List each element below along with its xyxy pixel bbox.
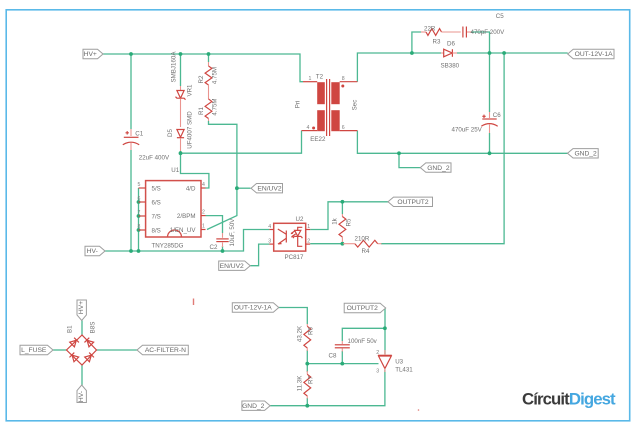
U1 pin 2 2/BPM — [201, 215, 206, 217]
wire C8 top branch — [342, 328, 385, 341]
svg-text:C8: C8 — [329, 353, 337, 360]
svg-text:HV-: HV- — [87, 248, 98, 255]
svg-text:5: 5 — [138, 182, 141, 188]
svg-text:B1: B1 — [67, 325, 74, 333]
net label AC-FILTER-N — [137, 345, 188, 354]
svg-text:2/BPM: 2/BPM — [177, 213, 196, 220]
wire C6 bottom — [489, 133, 491, 153]
svg-text:U1: U1 — [171, 167, 179, 174]
svg-text:EE22: EE22 — [310, 136, 326, 143]
svg-text:C5: C5 — [496, 13, 504, 20]
svg-text:3: 3 — [376, 369, 379, 375]
svg-text:U3: U3 — [395, 359, 403, 366]
stray red speck — [418, 409, 420, 411]
wire T2 pin6 to GND rail — [357, 131, 567, 154]
svg-text:SB380: SB380 — [441, 63, 460, 70]
svg-text:7/S: 7/S — [152, 213, 161, 220]
svg-text:1/EN_UV: 1/EN_UV — [170, 227, 197, 234]
svg-text:Pri: Pri — [295, 101, 302, 109]
svg-text:Sec: Sec — [352, 100, 359, 111]
transformer T2 pin 1 stub — [303, 81, 317, 83]
svg-text:4: 4 — [307, 125, 310, 131]
transformer T2 primary winding — [317, 82, 325, 104]
node snubber left — [410, 51, 414, 55]
node EN/UV2 junction — [235, 186, 239, 190]
wire bridge top to HV+ — [81, 321, 83, 336]
wire ref line R6R7 to TL431 — [307, 363, 378, 365]
capacitor C2 10uF 50V — [222, 233, 224, 238]
U2 pin 4 — [269, 229, 273, 231]
wire C1 branch top — [130, 54, 132, 129]
net label OUTPUT2 top — [388, 197, 433, 206]
transformer T2 pin 6 stub — [340, 130, 358, 132]
wire U1 pin2 to C2 — [206, 216, 223, 233]
node HV+ / VR1 junction — [179, 52, 183, 56]
svg-text:B8S: B8S — [89, 322, 96, 334]
wire R7 to GND — [306, 398, 308, 406]
wire R1 to EN/UV node — [207, 121, 237, 230]
net label GND_2 bottom — [242, 401, 270, 410]
resistor R4 210R — [343, 243, 355, 245]
wire D6 cathode to OUT label — [457, 52, 568, 54]
wire U1 ground bus — [138, 188, 140, 251]
wire bridge bottom to HV- — [81, 365, 83, 385]
svg-text:GND_2: GND_2 — [574, 151, 597, 158]
U2 LED — [298, 227, 303, 230]
svg-text:R3: R3 — [433, 39, 441, 46]
svg-text:22uF 400V: 22uF 400V — [139, 155, 170, 162]
net label HV- mid — [85, 246, 105, 255]
net label HV- vertical — [77, 385, 86, 403]
bridge diode bottom-left — [69, 353, 78, 362]
svg-text:AC-FILTER-N: AC-FILTER-N — [145, 347, 186, 354]
svg-text:C6: C6 — [493, 112, 501, 119]
diode D5 UF4007 — [177, 130, 184, 138]
node R6 R7 junction — [305, 362, 309, 366]
node bus pin7 — [137, 214, 141, 218]
node R5 bottom — [341, 242, 345, 246]
svg-text:4: 4 — [202, 182, 205, 188]
wire U2 pin2 / R4 net — [310, 243, 343, 245]
bridge diode bottom-right — [85, 353, 94, 362]
U2 pin 1 — [306, 229, 311, 231]
transformer T2 core — [327, 79, 330, 136]
wire C2 bottom — [222, 246, 224, 251]
svg-text:R2: R2 — [198, 75, 205, 83]
wire T2 pin8 to output — [357, 53, 441, 82]
net label OUTPUT2 bottom — [344, 303, 386, 312]
svg-text:OUT-12V-1A: OUT-12V-1A — [234, 305, 272, 312]
node HV- bus junction — [137, 249, 141, 253]
svg-text:GND_2: GND_2 — [242, 403, 265, 410]
wire snubber left — [412, 32, 421, 53]
bridge diode top-right — [84, 338, 93, 347]
net label GND_2 tap — [420, 163, 451, 172]
node TL431 cathode — [383, 326, 387, 330]
svg-text:4: 4 — [268, 224, 271, 230]
net label EN/UV2 right of U1 — [251, 184, 283, 193]
svg-text:U2: U2 — [296, 216, 304, 223]
wire drain node to primary — [181, 131, 302, 154]
svg-text:SMBJ160A: SMBJ160A — [171, 51, 178, 83]
node GND C6 — [488, 151, 492, 155]
svg-text:OUTPUT2: OUTPUT2 — [347, 305, 378, 312]
node OUT C6 — [488, 51, 492, 55]
wire HV- rail — [105, 230, 269, 252]
transformer T2 pin 8 stub — [340, 81, 358, 83]
node HV- C1 junction — [129, 249, 133, 253]
svg-text:UF4007 SMD: UF4007 SMD — [186, 111, 193, 149]
svg-text:R7: R7 — [308, 375, 315, 383]
node HV- C2 junction — [221, 249, 225, 253]
svg-text:2: 2 — [307, 238, 310, 244]
svg-text:6: 6 — [138, 196, 141, 202]
op IC U1 TNY285DG body — [146, 181, 201, 237]
wire R6 R7 chain — [306, 350, 308, 372]
svg-text:43.2K: 43.2K — [296, 325, 303, 342]
svg-text:6: 6 — [342, 125, 345, 131]
svg-text:470uF 25V: 470uF 25V — [452, 127, 483, 134]
bridge rectifier B1 diamond — [67, 335, 97, 365]
svg-text:4.75M: 4.75M — [211, 67, 218, 84]
node R5 top — [341, 200, 345, 204]
U2 light arrows — [291, 231, 296, 237]
wire R4 to OUT rail — [381, 53, 504, 244]
node bus pin6 — [137, 200, 141, 204]
svg-text:1: 1 — [202, 224, 205, 230]
svg-text:10uF, 50V: 10uF, 50V — [229, 218, 236, 247]
wire GND_2 bottom rail — [270, 370, 385, 406]
node HV+ / C1 junction — [129, 52, 133, 56]
svg-text:2: 2 — [376, 350, 379, 356]
U1 pin 1 EN_UV — [201, 229, 206, 231]
transformer T2 pin 4 stub — [302, 130, 318, 132]
bridge diode top-left — [70, 338, 79, 347]
svg-text:C2: C2 — [210, 244, 218, 251]
svg-text:R5: R5 — [345, 218, 352, 226]
net label HV+ vertical — [77, 300, 86, 321]
svg-text:3: 3 — [268, 238, 271, 244]
net label L_FUSE — [20, 345, 53, 354]
svg-text:CírcuitDigest: CírcuitDigest — [522, 390, 616, 409]
U1 pin 8 8/S — [139, 229, 146, 231]
net label EN/UV2 to opto — [219, 261, 251, 270]
svg-text:11.3K: 11.3K — [296, 375, 303, 392]
svg-text:1: 1 — [307, 224, 310, 230]
node GND R7 — [305, 404, 309, 408]
svg-text:1: 1 — [309, 76, 312, 82]
svg-text:D5: D5 — [167, 128, 174, 136]
svg-text:2: 2 — [202, 210, 205, 216]
svg-text:VR1: VR1 — [186, 84, 193, 97]
node C8 bottom — [340, 362, 344, 366]
svg-text:210R: 210R — [355, 236, 370, 243]
resistor R1 4.75M — [205, 99, 212, 119]
wire bridge right to AC-FILTER-N — [97, 349, 138, 351]
resistor R2 4.75M — [208, 62, 210, 66]
U2 pin 3 — [269, 243, 273, 245]
optocoupler U2 PC817 — [274, 223, 306, 251]
U1 pin 5 5/S — [139, 187, 146, 189]
svg-text:R6: R6 — [308, 326, 315, 334]
wire R2 branch — [208, 54, 210, 62]
node GND tap — [397, 151, 401, 155]
svg-text:L_FUSE: L_FUSE — [21, 347, 47, 354]
wire OUT-12V to R6 — [279, 308, 308, 325]
U2 phototransistor — [285, 231, 287, 243]
wire C8 bottom — [341, 351, 343, 364]
wire GND_2 tap — [399, 153, 420, 167]
svg-text:8: 8 — [342, 76, 345, 82]
wire drain to U1 pin 4 — [181, 153, 209, 188]
svg-text:470pF 200V: 470pF 200V — [471, 29, 506, 36]
svg-text:T2: T2 — [316, 74, 324, 81]
capacitor C6 470uF 25V — [489, 112, 491, 118]
svg-text:OUTPUT2: OUTPUT2 — [397, 199, 428, 206]
svg-text:HV-: HV- — [78, 391, 85, 402]
svg-text:EN/UV2: EN/UV2 — [220, 263, 244, 270]
U1 pin 7 7/S — [139, 215, 146, 217]
U1 pin 4 4/D — [201, 187, 206, 189]
diode D6 SB380 — [441, 52, 444, 54]
svg-text:4.75M: 4.75M — [211, 98, 218, 115]
svg-text:GND_2: GND_2 — [427, 165, 450, 172]
node bus pin8 — [137, 228, 141, 232]
net label OUT-12V-1A bottom — [232, 303, 278, 312]
capacitor C1 — [130, 129, 132, 136]
svg-text:TL431: TL431 — [395, 366, 413, 373]
svg-text:EN/UV2: EN/UV2 — [257, 185, 281, 192]
net label OUT-12V-1A top — [568, 49, 614, 58]
wire EN/UV2 to U2 pin3 — [250, 244, 269, 266]
resistor R3 22R — [421, 31, 426, 33]
svg-text:7: 7 — [138, 210, 141, 216]
svg-text:D6: D6 — [447, 40, 455, 47]
wire HV+ rail — [103, 54, 303, 82]
resistor R6 43.2K — [306, 324, 308, 326]
svg-text:100nF 50v: 100nF 50v — [348, 338, 378, 345]
svg-text:R4: R4 — [362, 248, 370, 255]
shunt regulator U3 TL431 — [378, 354, 392, 356]
wire OUTPUT2 label to TL431 cathode — [384, 309, 386, 355]
capacitor C5 470pF — [462, 27, 464, 38]
stray red tick — [193, 299, 194, 306]
wire bridge left to L_FUSE — [53, 349, 67, 351]
svg-text:C1: C1 — [135, 131, 143, 138]
svg-text:8/S: 8/S — [152, 227, 161, 234]
svg-text:PC817: PC817 — [285, 254, 304, 261]
svg-text:5/S: 5/S — [152, 185, 161, 192]
svg-text:4/D: 4/D — [186, 185, 196, 192]
wire R5 top node — [341, 202, 343, 214]
resistor R5 1k — [341, 214, 343, 217]
wire U2 pin1 to OUTPUT2 — [310, 202, 388, 230]
svg-text:22R: 22R — [424, 26, 436, 33]
svg-text:1k: 1k — [331, 217, 338, 224]
svg-text:HV+: HV+ — [84, 51, 97, 58]
zener VR1 SMBJ160A — [180, 86, 182, 90]
transformer T2 secondary winding — [331, 82, 339, 104]
wire VR1 branch — [180, 54, 182, 86]
U2 pin 2 — [306, 243, 311, 245]
net label GND_2 right — [568, 149, 599, 158]
wire C1 branch bottom — [130, 150, 132, 251]
wire C6 top — [489, 53, 491, 112]
capacitor C8 100nF — [341, 341, 343, 344]
svg-text:8: 8 — [138, 224, 141, 230]
svg-text:6/S: 6/S — [152, 199, 161, 206]
wire EN/UV2 label stub — [237, 187, 251, 189]
node drain junction — [179, 151, 183, 155]
svg-text:R1: R1 — [198, 106, 205, 114]
net label HV+ top — [83, 49, 103, 58]
svg-text:OUT-12V-1A: OUT-12V-1A — [575, 51, 613, 58]
U1 pin 6 6/S — [139, 201, 146, 203]
svg-text:TNY285DG: TNY285DG — [152, 243, 184, 250]
node HV+ / R2 junction — [207, 52, 211, 56]
svg-text:HV+: HV+ — [78, 301, 85, 314]
wire snubber right — [472, 32, 490, 53]
resistor R7 11.3K — [306, 371, 308, 374]
node OUT R4 return — [502, 51, 506, 55]
